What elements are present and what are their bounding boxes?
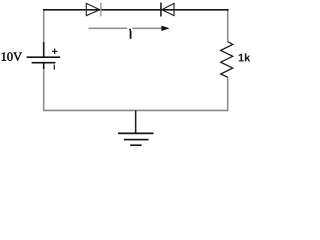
- wire: left conductor upper segment (top node to battery +): [43, 10, 45, 43]
- ground bar 2: [124, 139, 149, 141]
- diode D2 (right, cathode on left, points left): [160, 3, 174, 17]
- battery plate (-, short): [32, 62, 56, 64]
- resistor R1 (zigzag): [221, 42, 233, 78]
- ground: [118, 111, 154, 147]
- wire: bottom conductor: [43, 110, 229, 112]
- ground stem: [135, 111, 137, 134]
- D1 cathode bar: [100, 3, 101, 17]
- label background notch: [127, 27, 132, 30]
- wire: left conductor lower segment (battery - to bottom node): [43, 69, 45, 111]
- wire: top conductor: [43, 9, 229, 11]
- arrow head: [161, 26, 169, 31]
- battery lower lead: [43, 64, 45, 70]
- arrow shaft: [89, 28, 164, 30]
- ground bar 1 (widest): [118, 133, 154, 135]
- polarity mark - (vertical tick): [54, 65, 55, 70]
- D2 cathode bar: [160, 3, 162, 17]
- battery upper lead (to + plate): [43, 42, 45, 57]
- label: i (current): [129, 29, 131, 39]
- battery plate (+, long): [27, 56, 61, 58]
- D2 triangle (anode): [162, 3, 174, 15]
- wire: right conductor upper segment (top node to R1): [227, 10, 229, 42]
- wire: right conductor lower segment (R1 to bottom node): [227, 77, 229, 110]
- voltage source V1 (10V battery): [27, 42, 61, 70]
- value label: 1k: [239, 53, 251, 61]
- diode D1 (left, anode on left, points right): [86, 3, 101, 17]
- current reference arrow i: [89, 26, 170, 31]
- ground bar 3 (narrowest): [130, 144, 141, 146]
- D1 triangle (anode): [86, 3, 100, 15]
- value label: 10V: [2, 52, 22, 61]
- polarity mark +: [52, 49, 57, 55]
